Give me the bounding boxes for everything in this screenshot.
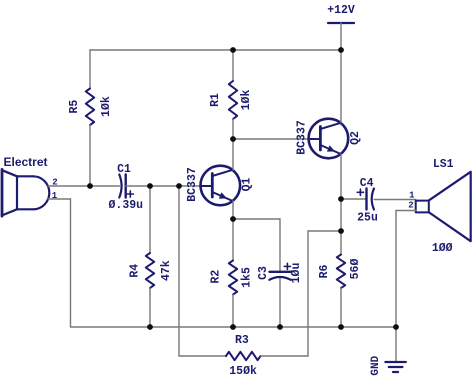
- node +12V rail: [338, 47, 344, 53]
- svg-text:1Øu: 1Øu: [290, 263, 303, 284]
- wire R3 left lead: [179, 355, 226, 357]
- svg-text:GND: GND: [370, 355, 382, 375]
- svg-text:Electret: Electret: [3, 155, 47, 169]
- wire Q2 collector: [340, 50, 342, 123]
- svg-text:+12V: +12V: [327, 4, 355, 17]
- wire R3 right lead: [261, 355, 309, 357]
- node Q2 base: [230, 136, 236, 142]
- wire mic pin1 stub: [48, 198, 70, 200]
- plus mark of C1: [127, 191, 133, 197]
- svg-text:47k: 47k: [160, 260, 173, 281]
- wire R4 top lead: [149, 186, 151, 253]
- capacitor C4 curved plate: [372, 189, 374, 210]
- wire C1 to Q1 base: [126, 185, 201, 187]
- svg-text:Q1: Q1: [241, 178, 254, 192]
- speaker LS1 box: [416, 201, 429, 213]
- node R2 bottom: [230, 324, 236, 330]
- wire C4 left lead: [341, 198, 366, 200]
- resistor R1: [229, 81, 237, 119]
- node Q1 base feedback: [176, 183, 182, 189]
- wire speaker pin2 drop: [395, 211, 397, 328]
- wire Q1 collector: [232, 139, 234, 170]
- svg-text:BC337: BC337: [296, 120, 309, 155]
- wire mic pin1 drop: [70, 199, 72, 327]
- node GND rail: [393, 324, 399, 330]
- wire mic pin2 to C1: [48, 185, 120, 187]
- wire C3 bottom lead: [279, 279, 281, 328]
- wire R4 bottom lead: [149, 288, 151, 327]
- node R1 top: [230, 47, 236, 53]
- node R3 to emitter rail: [338, 228, 344, 234]
- wire R1 top lead: [232, 50, 234, 81]
- wire feedback drop from Q1 base node: [178, 186, 180, 356]
- resistor R4: [146, 253, 154, 288]
- node R4 top: [147, 183, 153, 189]
- wire R2 top lead: [232, 219, 234, 261]
- power +12V bar: [328, 22, 354, 24]
- svg-text:25u: 25u: [357, 211, 378, 224]
- resistor R2: [229, 261, 237, 295]
- svg-text:1: 1: [409, 191, 415, 201]
- svg-text:R2: R2: [210, 270, 223, 284]
- capacitor C1 straight plate: [124, 175, 126, 198]
- wire R2 bottom lead: [232, 295, 234, 328]
- wire Q2 base from R1 node: [233, 138, 309, 140]
- wire R5 bottom lead: [89, 125, 91, 186]
- svg-text:1ØØ: 1ØØ: [432, 242, 453, 255]
- wire speaker pin2 stub: [396, 210, 416, 212]
- node R4 bottom: [147, 324, 153, 330]
- resistor R6: [337, 255, 345, 289]
- wire R3 riser: [307, 231, 309, 356]
- wire R6 bottom lead: [340, 288, 342, 327]
- svg-text:R6: R6: [318, 265, 331, 279]
- wire top rail: [90, 49, 341, 51]
- resistor R3: [226, 352, 261, 360]
- wire bottom rail: [71, 326, 397, 328]
- svg-text:R1: R1: [209, 93, 222, 107]
- plus mark of C4: [357, 189, 363, 195]
- wire Q1 emitter: [232, 201, 234, 219]
- electret microphone MIC body: [2, 169, 49, 216]
- wire C3 top lead: [279, 219, 281, 271]
- resistor R5: [86, 89, 94, 126]
- wire R1 bottom lead: [232, 119, 234, 139]
- wire GND drop: [395, 327, 397, 362]
- svg-text:Q2: Q2: [349, 131, 362, 145]
- capacitor C4 straight plate: [365, 189, 367, 210]
- wire +12V drop: [340, 23, 342, 50]
- ground GND symbol: [385, 362, 405, 372]
- transistor Q1: [201, 166, 241, 206]
- capacitor C3 curved plate: [269, 277, 290, 280]
- svg-text:1k5: 1k5: [240, 267, 253, 288]
- plus mark of C3: [284, 263, 290, 269]
- speaker LS1 horn: [429, 172, 471, 241]
- svg-text:C3: C3: [257, 266, 270, 280]
- node C3 bottom: [277, 324, 283, 330]
- wire R3 riser to emitter rail: [308, 230, 341, 232]
- svg-text:Ø.39u: Ø.39u: [109, 199, 144, 212]
- wire C4 to speaker pin1: [374, 199, 416, 201]
- wire Q2 emitter: [340, 154, 342, 199]
- node R5 bottom: [87, 183, 93, 189]
- wire R5 top lead: [89, 50, 91, 89]
- svg-text:R4: R4: [129, 264, 142, 278]
- svg-text:2: 2: [408, 200, 413, 210]
- capacitor C1 curved plate: [119, 175, 121, 198]
- node R6 bottom: [338, 324, 344, 330]
- svg-text:R3: R3: [235, 334, 249, 347]
- node Q1 emitter: [230, 216, 236, 222]
- svg-text:R5: R5: [68, 100, 81, 114]
- svg-text:1Øk: 1Øk: [100, 96, 113, 117]
- svg-text:1Øk: 1Øk: [240, 90, 253, 111]
- capacitor C3 straight plate: [270, 271, 291, 273]
- svg-text:56Ø: 56Ø: [349, 259, 362, 280]
- svg-text:LS1: LS1: [433, 158, 454, 171]
- svg-text:15Øk: 15Øk: [229, 365, 257, 378]
- node C4 tap: [338, 196, 344, 202]
- wire Q1 emitter node to C3 branch: [233, 218, 280, 220]
- wire emitter rail to R6: [340, 199, 342, 255]
- transistor Q2: [309, 119, 349, 159]
- svg-text:BC337: BC337: [186, 167, 199, 202]
